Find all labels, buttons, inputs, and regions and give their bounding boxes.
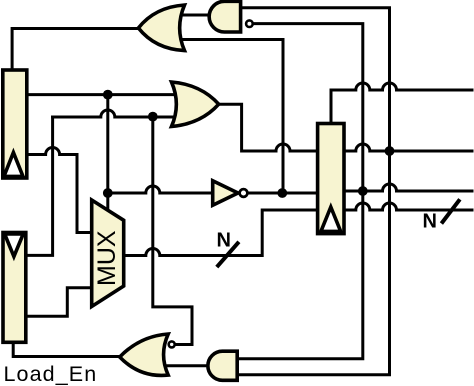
svg-text:N: N: [423, 211, 437, 233]
mux U7: [92, 200, 124, 307]
register R3 clock triangle: [321, 207, 341, 231]
junction dot node A (282.3,193): [277, 188, 287, 198]
wire: register R3 clock-row right to edge (bus N), hops x362.8 x389.5: [344, 203, 472, 210]
wire: branch from node (107.8,94.6) down to MUX select: [106, 95, 109, 211]
wire: OR U3 output right, down, to register R3 input, hop over x283: [219, 104, 318, 151]
svg-text:Load_En: Load_En: [4, 362, 98, 386]
wire: top-left OR output to register R1 top: [12, 29, 138, 71]
junction dot (152.8,116.6): [148, 112, 158, 122]
or-gate U3 (middle, points right): [172, 82, 219, 127]
junction dot (389.5,151): [385, 146, 395, 156]
wire: NAND U2 output to OR U1 top input: [182, 14, 209, 17]
junction dot (107.8,193): [103, 188, 113, 198]
nand-gate U2 (top, points left): [209, 1, 240, 32]
bus slash on right output: [441, 199, 460, 223]
wire: net at y117 to OR U3 lower input, hop over x108: [53, 110, 178, 117]
nor U5 input bubble: [169, 341, 175, 347]
wire: register R2 data to MUX input 2: [26, 288, 92, 317]
nor-gate U5 (bottom, points left): [120, 334, 169, 375]
wire: inverter U4 input from node (107.8,193), hop over x153: [108, 186, 213, 193]
register R2 clock triangle: [5, 234, 24, 257]
register R1 (top-left): [3, 70, 27, 178]
wire: inverter U4 output to register R3 D input, node A junction: [248, 192, 317, 195]
wire: register R3 Q y151 to right edge, hop x362.8, junction x389.5: [344, 144, 472, 151]
wire: register R3 Q y191 to right edge, junction x362.8, hop x389.5: [344, 184, 472, 191]
wire: NAND U2 top input right, down right side, to AND U6 lower input: [237, 8, 389, 375]
inverter U4: [213, 181, 238, 205]
wire: NAND U2 bubble input right, down, to AND U6 upper input: [237, 24, 363, 359]
wire: MUX output bus, hop over x153, up x262, to register R3 clock row: [124, 210, 318, 256]
svg-text:MUX: MUX: [93, 230, 121, 286]
bus slash on MUX output: [217, 242, 239, 267]
junction dot (362.8,191): [358, 186, 368, 196]
wire: AND U6 output to NOR U5 lower input: [164, 364, 208, 367]
or-gate U1 (top-left, points left): [138, 5, 184, 51]
svg-text:N: N: [217, 230, 231, 252]
and-gate U6 (bottom, points left): [208, 351, 237, 380]
wire: x53 vertical down to register R2 clock: [26, 117, 53, 255]
wire: register R1 Q output to OR U3 upper input: [27, 93, 178, 96]
register R1 clock triangle: [4, 153, 23, 177]
register R3 (right): [318, 124, 344, 234]
inverter U4 bubble: [240, 189, 248, 197]
wire: register R3 top stub and y90 line to right edge, hops x362.8 x389.5: [331, 83, 472, 124]
wire: register R1 clock line, hop over x53, down x77, to MUX input 1: [27, 148, 92, 233]
junction dot (107.8,94.6): [103, 90, 113, 100]
wire: branch x153 down, over to bottom NOR bubble input: [153, 117, 192, 345]
nand U2 input bubble: [246, 20, 253, 27]
register R2 (bottom-left): [3, 233, 26, 343]
wire: OR U1 lower input up-over to node A vertical (x283): [184, 40, 283, 194]
wire: bottom NOR U5 output to register R2 bottom input: [13, 342, 120, 356]
